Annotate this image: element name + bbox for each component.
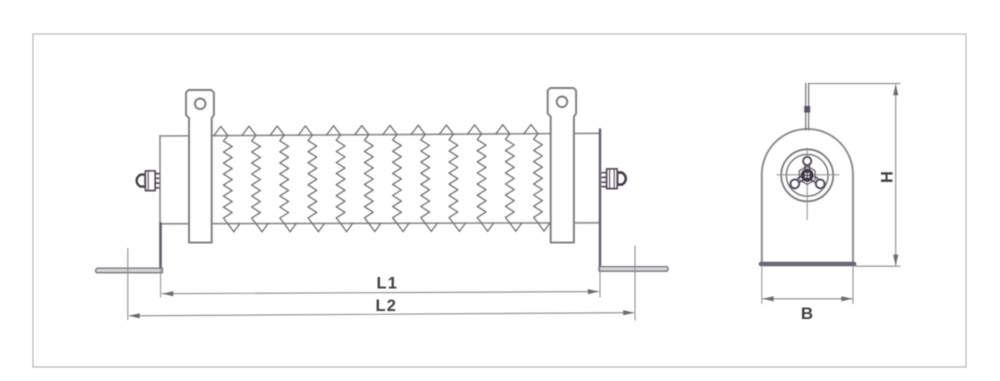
- dimension L2: [130, 313, 634, 316]
- end view body (tombstone outline): [762, 129, 853, 262]
- winding (zigzag wire): [214, 125, 550, 232]
- end cap outer circle: [781, 149, 833, 201]
- right foot hole centerline: [634, 246, 636, 320]
- end cap inner circle: [786, 154, 828, 196]
- wing nut (hub + three lobes): [790, 157, 824, 188]
- center lines of end cap: [806, 148, 808, 220]
- right mounting bracket: [548, 88, 576, 243]
- left mounting foot: [96, 223, 163, 272]
- left foot hole centerline: [127, 249, 129, 320]
- svg-text:L1: L1: [377, 275, 399, 293]
- end view base plate: [761, 262, 854, 267]
- svg-text:L2: L2: [376, 297, 398, 315]
- left mounting bracket: [186, 90, 214, 243]
- right bracket hole: [557, 97, 568, 108]
- svg-text:H: H: [879, 171, 897, 183]
- dimension L1: [161, 269, 600, 298]
- dimension H: [809, 84, 900, 267]
- right terminal bolt: [602, 169, 626, 189]
- end view strap edge-on: [806, 83, 809, 130]
- right mounting foot: [599, 130, 668, 272]
- left bracket hole: [195, 99, 206, 110]
- svg-text:B: B: [801, 304, 813, 323]
- left terminal bolt: [137, 171, 160, 191]
- hub dark ring: [803, 171, 812, 180]
- dimension B: [762, 267, 853, 304]
- resistor body (side view cylinder): [160, 133, 600, 268]
